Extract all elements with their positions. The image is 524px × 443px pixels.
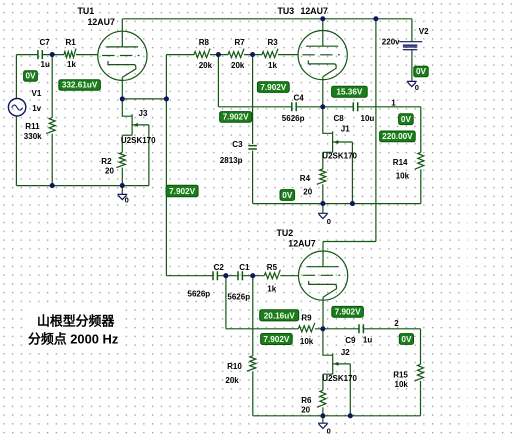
- wire U3 cathode lead: [322, 77, 324, 107]
- wire J2 gate loop: [349, 364, 351, 416]
- probe 220.00V at node 1: [380, 131, 416, 142]
- jfet J1 2SK170: [323, 107, 353, 153]
- resistor R7: [228, 49, 244, 58]
- svg-text:R1: R1: [66, 38, 77, 47]
- svg-text:C1: C1: [239, 263, 250, 272]
- svg-text:10k: 10k: [300, 337, 314, 346]
- wire V1 bottom lead: [15, 116, 17, 186]
- svg-text:5626p: 5626p: [282, 114, 305, 123]
- wire ground lead 4: [322, 416, 324, 423]
- junction node at 375.9,18.8: [373, 16, 378, 21]
- svg-text:220.00V: 220.00V: [382, 132, 413, 141]
- resistor R10: [247, 356, 256, 371]
- probe 0V at R4 rail: [280, 190, 295, 201]
- wire R15 branch: [420, 329, 422, 416]
- wire U2 cathode lead: [322, 297, 324, 329]
- wire to C4: [218, 55, 291, 107]
- junction node at 225.9,275.7: [223, 273, 228, 278]
- junction node at 52.2,54.6: [50, 52, 55, 57]
- ground node 0 (stage2): [318, 213, 328, 218]
- svg-text:20k: 20k: [231, 61, 245, 70]
- resistor R5: [264, 270, 280, 279]
- wire top B+ rail: [122, 18, 412, 20]
- wire up to R8: [166, 55, 194, 99]
- svg-text:0: 0: [327, 217, 331, 226]
- svg-text:V1: V1: [32, 89, 42, 98]
- capacitor C7: [38, 50, 42, 59]
- svg-text:1: 1: [391, 99, 396, 108]
- svg-text:330k: 330k: [24, 132, 42, 141]
- svg-text:7.902V: 7.902V: [169, 187, 195, 196]
- wire R14 branch: [420, 107, 422, 204]
- svg-text:1k: 1k: [267, 285, 276, 294]
- svg-text:7.902V: 7.902V: [335, 308, 361, 317]
- svg-text:R6: R6: [301, 396, 312, 405]
- svg-text:U2SK170: U2SK170: [121, 136, 156, 145]
- svg-text:12AU7: 12AU7: [288, 239, 315, 249]
- svg-text:V2: V2: [419, 27, 429, 36]
- svg-text:0V: 0V: [25, 72, 36, 81]
- svg-text:C3: C3: [232, 140, 243, 149]
- svg-text:R15: R15: [393, 370, 408, 379]
- ground node 0 (stage1): [117, 194, 127, 199]
- wire V2 leads: [411, 19, 413, 82]
- svg-text:20: 20: [105, 166, 114, 175]
- wire ground rail mid: [253, 203, 421, 205]
- probe 0V below V2: [414, 66, 428, 77]
- resistor R14: [415, 152, 424, 169]
- wire ground lead 1: [121, 186, 123, 195]
- svg-text:R8: R8: [199, 38, 210, 47]
- junction node at 322.8,18.8: [320, 16, 325, 21]
- junction node at 52.2,185.6: [50, 183, 55, 188]
- svg-text:220v: 220v: [382, 37, 400, 46]
- svg-text:0: 0: [125, 195, 129, 204]
- svg-text:0V: 0V: [401, 335, 412, 344]
- svg-text:20: 20: [301, 406, 310, 415]
- junction node at 122.3,98.9: [120, 96, 125, 101]
- probe 332.61uV at U1 grid: [59, 80, 101, 90]
- svg-text:0: 0: [327, 427, 331, 436]
- svg-text:R9: R9: [301, 314, 312, 323]
- svg-text:J2: J2: [341, 348, 350, 357]
- junction node at 352.4,203.6: [350, 201, 355, 206]
- svg-text:20k: 20k: [199, 61, 213, 70]
- jfet J2 2SK170: [323, 329, 350, 374]
- capacitor C4: [292, 102, 296, 111]
- svg-text:TU2: TU2: [277, 228, 294, 238]
- wire J1 source to R4: [322, 152, 324, 203]
- probe 7.902V below R7: [220, 112, 252, 123]
- ground node 0 (V2): [407, 81, 417, 86]
- svg-text:5626p: 5626p: [227, 292, 250, 301]
- wire U3 plate lead: [322, 19, 324, 47]
- wire R8-R7-R3 row: [210, 54, 298, 56]
- svg-text:15.36V: 15.36V: [336, 88, 362, 97]
- probe 20.16uV at R9: [260, 310, 299, 321]
- junction node at 252.8,275.7: [250, 273, 255, 278]
- svg-text:0V: 0V: [416, 67, 427, 76]
- wire J3 gate loop: [148, 125, 150, 186]
- vacuum tube U1 12AU7: [98, 31, 147, 80]
- wire J2 source to R6: [322, 374, 324, 416]
- svg-text:2: 2: [394, 319, 399, 328]
- junction node at 322.9,328.8: [320, 326, 325, 331]
- svg-text:TU1: TU1: [78, 6, 95, 16]
- svg-text:R11: R11: [25, 122, 40, 131]
- svg-text:1v: 1v: [32, 104, 41, 113]
- svg-text:J1: J1: [341, 125, 350, 134]
- wire V1 top lead: [15, 55, 17, 99]
- svg-text:10k: 10k: [395, 380, 409, 389]
- capacitor C9: [359, 324, 363, 333]
- svg-text:12AU7: 12AU7: [88, 17, 115, 27]
- svg-text:0V: 0V: [401, 115, 412, 124]
- wire B+ down to U2 plate: [323, 19, 376, 267]
- svg-text:20.16uV: 20.16uV: [264, 311, 295, 320]
- svg-text:1k: 1k: [67, 60, 76, 69]
- wire bottom rail stage1: [16, 185, 149, 187]
- svg-text:10k: 10k: [396, 172, 410, 181]
- svg-text:5626p: 5626p: [188, 289, 211, 298]
- svg-text:1u: 1u: [363, 336, 372, 345]
- junction node at 322.8,106.8: [320, 104, 325, 109]
- capacitor C8: [353, 102, 357, 111]
- junction node at 322.9,415.8: [320, 413, 325, 418]
- jfet J3 2SK170: [122, 99, 149, 135]
- svg-text:C7: C7: [40, 38, 51, 47]
- probe 7.902V above C4: [257, 82, 289, 93]
- resistor R11: [46, 118, 55, 134]
- capacitor C3: [248, 146, 257, 149]
- ground node 0 (stage3): [318, 423, 328, 428]
- svg-text:2813p: 2813p: [220, 156, 243, 165]
- wire long drop to C2: [166, 99, 213, 276]
- svg-text:R10: R10: [227, 362, 242, 371]
- svg-text:1u: 1u: [41, 60, 50, 69]
- svg-text:1k: 1k: [268, 61, 277, 70]
- svg-text:7.902V: 7.902V: [263, 335, 289, 344]
- vacuum tube U2 12AU7: [299, 251, 348, 300]
- junction node at 122.3,185.6: [120, 183, 125, 188]
- resistor R6: [317, 390, 326, 407]
- resistor R3: [262, 49, 278, 58]
- probe 15.36V at U3 cathode: [332, 86, 368, 97]
- wire C3 branch: [252, 55, 254, 204]
- svg-text:0: 0: [415, 83, 419, 92]
- svg-text:7.902V: 7.902V: [223, 113, 249, 122]
- resistor R15: [415, 364, 424, 381]
- svg-text:R2: R2: [101, 157, 112, 166]
- svg-text:R3: R3: [268, 38, 279, 47]
- wire J1 gate loop: [351, 142, 353, 204]
- wire input row: [16, 54, 98, 56]
- wire C4-C8-node1 row: [297, 106, 421, 108]
- svg-text:R4: R4: [300, 174, 311, 183]
- vacuum tube U3 12AU7: [298, 30, 347, 79]
- wire U1 plate lead: [121, 19, 123, 47]
- svg-text:C9: C9: [345, 336, 356, 345]
- probe 7.902V below 20.16uV: [261, 334, 293, 345]
- junction node at 166.4,98.9: [164, 96, 169, 101]
- svg-text:J3: J3: [139, 109, 148, 118]
- svg-text:0V: 0V: [282, 191, 293, 200]
- capacitor C2: [213, 271, 217, 280]
- wire cathode2 to C9 node2: [315, 328, 421, 330]
- svg-text:20k: 20k: [225, 376, 239, 385]
- resistor R4: [317, 169, 326, 184]
- svg-text:C8: C8: [334, 114, 345, 123]
- svg-text:R5: R5: [267, 263, 278, 272]
- battery source V2: [399, 41, 422, 43]
- svg-text:TU3: TU3: [278, 6, 295, 16]
- wire ground lead 3: [322, 204, 324, 214]
- svg-text:C4: C4: [294, 94, 305, 103]
- wire J3 source to R2: [121, 135, 123, 185]
- svg-text:山根型分频器: 山根型分频器: [37, 313, 115, 328]
- svg-text:10u: 10u: [361, 114, 375, 123]
- resistor R8: [194, 49, 210, 58]
- svg-text:C2: C2: [214, 263, 225, 272]
- wire cathode node to feedback: [122, 98, 166, 100]
- probe 7.902V on feedback drop: [166, 185, 198, 197]
- svg-text:U2SK170: U2SK170: [322, 374, 357, 383]
- probe 7.902V at U2 cathode: [332, 306, 364, 317]
- svg-text:R14: R14: [393, 158, 408, 167]
- svg-text:12AU7: 12AU7: [301, 6, 328, 16]
- svg-text:20: 20: [303, 188, 312, 197]
- svg-text:U2SK170: U2SK170: [322, 152, 357, 161]
- probe 0V at V1 input: [24, 71, 38, 81]
- ac source V1: [8, 99, 25, 116]
- capacitor C1: [238, 271, 242, 280]
- probe 0V at node 1: [399, 114, 414, 125]
- junction node at 350.3,415.8: [348, 413, 353, 418]
- svg-text:7.902V: 7.902V: [260, 83, 286, 92]
- junction node at 252.6,54.6: [250, 52, 255, 57]
- junction node at 218.4,54.6: [216, 52, 221, 57]
- wire M-node drop to R9: [226, 276, 298, 329]
- wire C2-C1-R5 row: [218, 275, 299, 277]
- junction node at 322.9,203.6: [320, 201, 325, 206]
- resistor R1: [64, 49, 76, 58]
- svg-text:分频点 2000 Hz: 分频点 2000 Hz: [28, 332, 118, 347]
- wire U1 cathode lead: [121, 77, 123, 99]
- resistor R9: [298, 323, 315, 332]
- resistor R2: [116, 152, 125, 167]
- svg-text:R7: R7: [235, 38, 246, 47]
- wire B-node drop through R10: [252, 276, 254, 416]
- probe 0V at node 2: [399, 334, 413, 345]
- svg-text:332.61uV: 332.61uV: [62, 81, 98, 90]
- wire bottom rail 2: [253, 415, 421, 417]
- wire R11 branch: [51, 55, 53, 186]
